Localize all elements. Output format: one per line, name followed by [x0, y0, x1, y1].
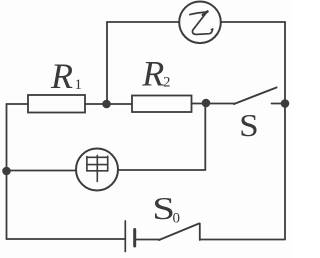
- wire right vertical: [284, 22, 286, 239]
- wire switch S left stub: [206, 103, 235, 105]
- wire switch S right stub: [272, 103, 286, 105]
- wire left stub to R1: [7, 103, 29, 105]
- node junction dot C: [281, 99, 290, 108]
- wire bottom right: [200, 239, 285, 241]
- wire to meter 甲: [7, 170, 77, 172]
- resistor R1: [28, 95, 85, 113]
- svg-text:R: R: [141, 54, 164, 94]
- wire vertical up to junction B: [204, 103, 206, 170]
- wire battery to S0: [136, 239, 160, 241]
- wire R1 to junction: [85, 103, 107, 105]
- meter 乙 glyph: [190, 12, 213, 35]
- node junction dot A: [102, 100, 111, 109]
- wire top horizontal right of meter 乙: [221, 21, 285, 23]
- wire top-left connector vertical (junction to top wire): [106, 22, 108, 104]
- meter 乙 (voltmeter) circle U2: [179, 2, 221, 44]
- switch S blade: [234, 88, 277, 105]
- wire top horizontal left of meter 乙: [107, 21, 179, 23]
- battery long plate (+): [124, 221, 126, 252]
- node junction dot D: [2, 167, 11, 176]
- wire junction to R2: [107, 103, 133, 105]
- wire bottom left: [7, 238, 126, 240]
- wire meter 甲 to right: [118, 169, 205, 171]
- svg-text:0: 0: [173, 211, 181, 227]
- svg-text:R: R: [50, 56, 73, 96]
- svg-text:S: S: [239, 108, 259, 143]
- wire left vertical: [6, 104, 8, 239]
- switch S0 fixed contact tick: [199, 224, 201, 241]
- battery short plate (-): [133, 230, 136, 247]
- node junction dot B: [202, 99, 211, 108]
- meter 甲 (ammeter) circle U1: [76, 149, 118, 191]
- svg-text:2: 2: [163, 75, 171, 91]
- resistor R2: [132, 96, 192, 113]
- wire R2 to junction B: [192, 103, 207, 105]
- switch S0 blade: [159, 224, 199, 241]
- meter 甲 glyph: [87, 155, 108, 181]
- svg-text:1: 1: [75, 77, 83, 93]
